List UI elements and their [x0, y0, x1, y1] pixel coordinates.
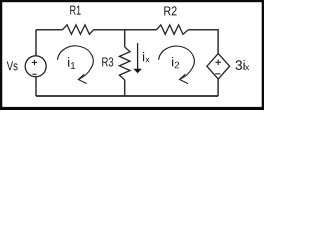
wire left vertical upper — [35, 30, 37, 56]
label i2 — [172, 57, 173, 66]
wire right vertical lower — [217, 79, 219, 96]
dependent source U1 (diamond) — [207, 54, 230, 79]
wire top-right horizontal — [188, 29, 218, 31]
label Vs — [7, 61, 18, 70]
mesh current loop i2 — [159, 46, 195, 79]
label i1 — [68, 57, 69, 66]
current arrow ix — [137, 43, 139, 69]
resistor R1 — [62, 25, 93, 34]
plus sign in diamond — [215, 60, 221, 66]
mesh current loop i1 — [58, 46, 94, 79]
label R1 — [70, 6, 80, 15]
border frame — [0, 0, 264, 110]
wire top-middle horizontal — [94, 29, 157, 31]
label R3 — [102, 57, 113, 66]
wire middle vertical lower — [124, 80, 126, 96]
label ix — [143, 52, 144, 61]
resistor R3 — [119, 47, 130, 80]
wire top-left horizontal — [36, 29, 62, 31]
wire bottom horizontal — [36, 95, 218, 97]
voltage source Vs (circle) — [25, 56, 46, 77]
label 3ix — [236, 60, 245, 70]
label R2 — [164, 6, 176, 15]
resistor R2 — [157, 25, 189, 34]
wire right vertical upper — [217, 29, 219, 54]
wire middle vertical upper — [124, 30, 126, 47]
plus sign in source — [32, 60, 37, 65]
minus sign in source — [32, 73, 36, 75]
wire left vertical lower — [35, 77, 37, 96]
minus sign in diamond — [215, 73, 220, 75]
